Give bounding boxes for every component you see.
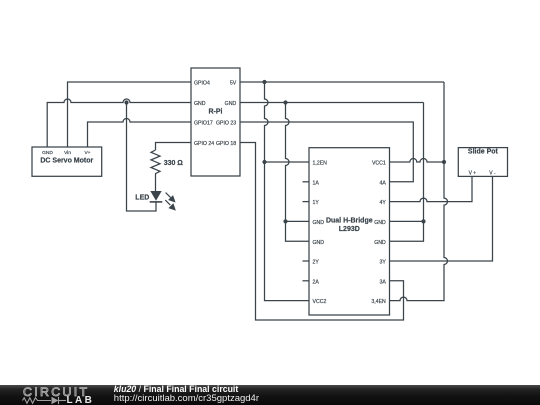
svg-text:GND: GND <box>313 240 325 246</box>
wire 5V horizontal <box>240 81 444 83</box>
svg-text:DC Servo Motor: DC Servo Motor <box>40 158 93 165</box>
svg-text:1A: 1A <box>313 180 320 186</box>
wire GND (R-Pi right) horizontal <box>240 102 424 104</box>
svg-text:1,2EN: 1,2EN <box>313 161 328 167</box>
resistor 330 ohm zigzag <box>151 150 160 191</box>
svg-text:V+: V+ <box>84 150 90 156</box>
svg-text:V -: V - <box>489 171 496 177</box>
wire GPIO17 to motor V+ with hop <box>88 119 192 148</box>
svg-text:3Y: 3Y <box>379 260 386 266</box>
wire 5V right vertical to 3,4EN with hops <box>390 82 448 301</box>
junction on 5V line <box>262 80 266 84</box>
LED cathode bar <box>150 201 163 203</box>
svg-text:4Y: 4Y <box>379 200 386 206</box>
wire GND mid vertical to H-bridge left GNDs with hops <box>286 103 310 242</box>
svg-text:GND: GND <box>225 101 237 107</box>
svg-text:3A: 3A <box>379 279 386 285</box>
svg-text:GPIO17: GPIO17 <box>194 121 213 127</box>
svg-text:GND: GND <box>374 240 386 246</box>
wire GND1 right stub <box>390 220 424 222</box>
wire 4Y to Slide Pot V+ with hop <box>390 176 473 201</box>
junction 1,2EN <box>262 160 266 164</box>
pin stub 2Y <box>303 260 310 262</box>
IC R-Pi box <box>191 68 240 176</box>
LED emission arrow 2 <box>165 200 175 210</box>
wire GND branch to LED cathode <box>127 103 157 212</box>
pin stub 2A <box>303 280 310 282</box>
wire GPIO 24 to resistor <box>156 143 192 151</box>
wire GPIO 18 to 3A <box>240 143 404 321</box>
svg-text:GPIO4: GPIO4 <box>194 81 210 87</box>
svg-text:LED: LED <box>135 195 149 202</box>
svg-text:330 Ω: 330 Ω <box>164 160 184 167</box>
DC Servo Motor box <box>32 147 102 176</box>
pin stub 1A <box>303 181 310 183</box>
footer text line 1 <box>114 385 238 395</box>
junction VCC1 <box>442 160 446 164</box>
svg-text:GND: GND <box>42 150 53 156</box>
LED emission arrow 1 <box>166 193 175 202</box>
svg-text:Dual H-Bridge: Dual H-Bridge <box>326 217 373 224</box>
junction GND1 left <box>283 219 287 223</box>
wire GND1 left branch <box>286 220 310 222</box>
junction GND to LED <box>124 100 128 104</box>
svg-text:1Y: 1Y <box>313 200 320 206</box>
svg-text:4A: 4A <box>379 180 386 186</box>
footer text line 2 <box>114 394 259 404</box>
footer bar <box>0 385 540 405</box>
svg-text:GPIO 18: GPIO 18 <box>216 141 236 147</box>
svg-text:GND: GND <box>374 220 386 226</box>
wire GND (R-Pi left) to motor GND with hops <box>47 99 191 147</box>
wire 1,2EN branch <box>265 161 310 163</box>
svg-text:GND: GND <box>313 220 325 226</box>
wire GND right vertical to H-bridge right GNDs <box>390 103 424 242</box>
wire VCC1 with hops <box>390 159 445 162</box>
pin stub 1Y <box>303 201 310 203</box>
wire 3Y to Slide Pot V- <box>390 176 493 261</box>
IC Dual H-Bridge L293D box <box>309 148 390 315</box>
CircuitLab logo CIRCUIT <box>23 385 89 400</box>
svg-text:Slide Pot: Slide Pot <box>468 148 499 155</box>
svg-text:GPIO 24: GPIO 24 <box>194 141 214 147</box>
LED triangle <box>150 191 161 201</box>
svg-text:VCC2: VCC2 <box>313 299 327 305</box>
svg-text:GND: GND <box>194 101 206 107</box>
wire 5V vertical to 1,2EN and VCC2 with hops <box>265 82 310 301</box>
svg-text:GPIO 23: GPIO 23 <box>216 121 236 127</box>
junction GND1 right <box>421 219 425 223</box>
svg-text:5V: 5V <box>230 81 237 87</box>
CircuitLab logo schematic squiggle <box>0 385 110 405</box>
svg-text:2Y: 2Y <box>313 260 320 266</box>
svg-text:3,4EN: 3,4EN <box>371 299 386 305</box>
wire GPIO4 to motor Vin <box>68 82 192 147</box>
svg-text:V +: V + <box>469 171 477 177</box>
wire GPIO 23 to 4A <box>240 122 413 182</box>
svg-text:R-Pi: R-Pi <box>209 109 223 116</box>
svg-text:Vin: Vin <box>64 150 71 156</box>
svg-text:VCC1: VCC1 <box>372 161 386 167</box>
CircuitLab logo LAB <box>67 396 95 405</box>
junction GND mid <box>283 100 287 104</box>
svg-text:2A: 2A <box>313 279 320 285</box>
svg-text:L293D: L293D <box>339 226 360 233</box>
Slide Pot box <box>458 148 507 177</box>
